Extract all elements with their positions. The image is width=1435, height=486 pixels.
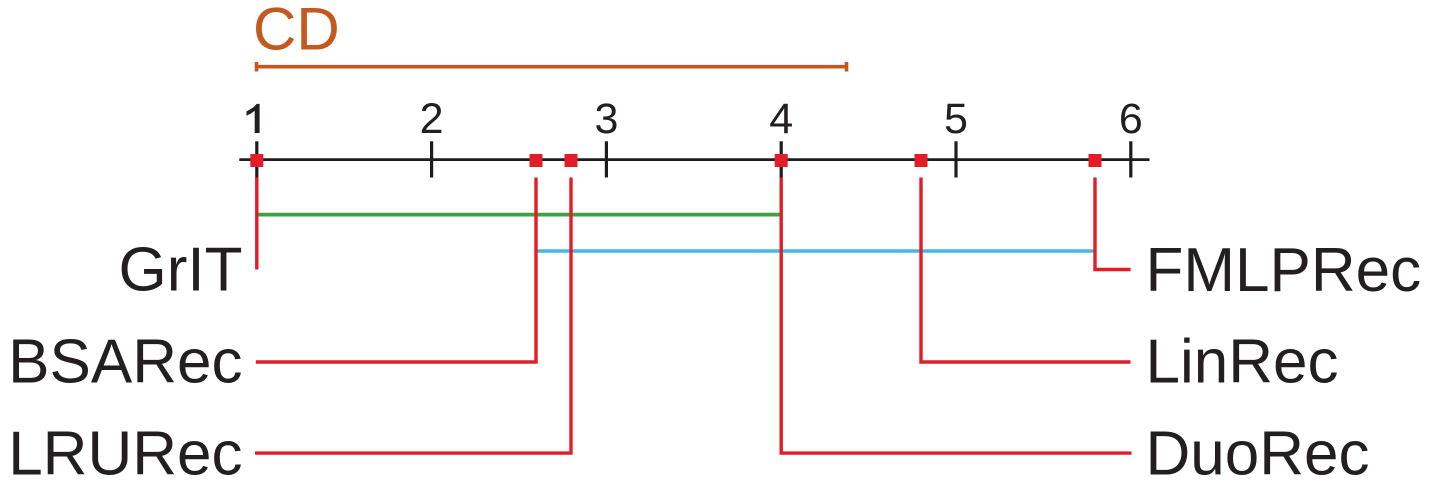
- svg-text:CD: CD: [253, 0, 340, 63]
- svg-text:LRURec: LRURec: [8, 419, 242, 486]
- svg-text:BSARec: BSARec: [8, 328, 242, 397]
- svg-text:4: 4: [769, 95, 793, 143]
- svg-text:LinRec: LinRec: [1146, 328, 1339, 397]
- svg-text:2: 2: [420, 95, 444, 143]
- svg-text:GrIT: GrIT: [119, 236, 243, 305]
- svg-text:3: 3: [594, 95, 618, 143]
- svg-text:5: 5: [944, 95, 968, 143]
- svg-text:FMLPRec: FMLPRec: [1146, 236, 1422, 305]
- svg-text:6: 6: [1119, 95, 1143, 143]
- svg-text:DuoRec: DuoRec: [1146, 419, 1370, 486]
